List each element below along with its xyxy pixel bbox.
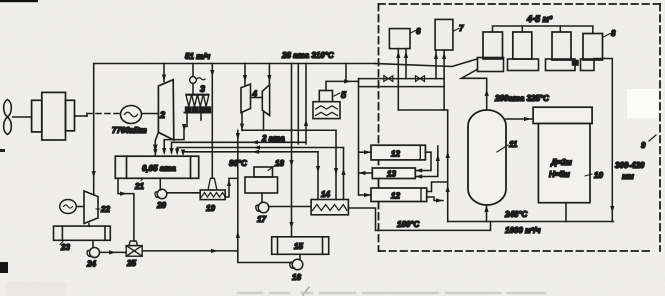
storage drum 3: [552, 32, 571, 60]
wire condenser21 bottom to ejector 25 via arrowed line: [118, 178, 134, 241]
wire bus drop into turbine 2 inlet: [163, 64, 165, 82]
propeller fan: [4, 100, 12, 135]
heat exchanger 13: [372, 168, 415, 179]
svg-text:100°С: 100°С: [397, 220, 420, 229]
drum manifold bracket: [493, 26, 593, 34]
drum water line 248C: [448, 221, 614, 223]
generator G 7700kW: [121, 106, 142, 124]
pump 20: [157, 189, 167, 199]
svg-text:300-420: 300-420: [615, 161, 645, 170]
wire bus drop to reducing station 3: [192, 64, 194, 77]
svg-text:10: 10: [594, 171, 603, 180]
svg-text:7700кВт: 7700кВт: [112, 126, 147, 135]
wire stub into 12 upper: [359, 151, 372, 153]
scan artifact white patch: [627, 89, 658, 118]
condensate nest line N2: [177, 148, 343, 153]
svg-text:16: 16: [292, 273, 301, 282]
svg-text:15: 15: [294, 242, 303, 251]
ejector cooler 19: [200, 178, 225, 199]
exchanger right-side connectors: [415, 152, 431, 170]
wire turbine22 exhaust to heater 23: [88, 224, 90, 227]
wire 19 right riser to x=237.8: [225, 178, 238, 197]
svg-text:12: 12: [391, 191, 400, 200]
wire band to downcomer: [594, 59, 612, 222]
tank 15: [272, 237, 329, 255]
storage drum 1: [483, 32, 503, 59]
turbine 22: [84, 191, 98, 224]
svg-text:25: 25: [126, 259, 136, 268]
dashed enclosure border (reactor plant boundary): [379, 4, 661, 251]
svg-text:3: 3: [200, 84, 205, 94]
wire bus down-left vertical to turbine 22: [93, 64, 95, 196]
wire turbine4 LP exhaust: [263, 112, 265, 130]
boiler vessel 11: [468, 110, 506, 205]
wire vertical x=358.5 feeding exchanger bank: [358, 79, 360, 195]
wire to pump 16: [238, 259, 291, 263]
svg-text:19: 19: [206, 204, 215, 213]
svg-text:80°С: 80°С: [229, 159, 247, 168]
wire stub into 12 lower: [359, 194, 372, 196]
svg-text:9: 9: [641, 141, 646, 150]
caption remnant dashes at bottom: [238, 292, 545, 295]
svg-text:0,05 ата: 0,05 ата: [142, 164, 176, 173]
drum support band: [478, 58, 595, 72]
wire condenser21 to pump 20: [159, 178, 161, 190]
wire risers to tank 7: [435, 50, 437, 79]
heat exchanger 12 (upper): [371, 145, 425, 160]
squiggle from circle: [197, 78, 206, 80]
wire 23 to pump 24: [92, 240, 94, 247]
motor of turbine 22: [60, 200, 77, 214]
wire riser into boiler vessel bottom: [486, 206, 488, 222]
svg-text:21: 21: [134, 182, 144, 191]
turbine 2 exhaust to condenser 21: [155, 132, 158, 156]
tank 6: [389, 29, 410, 49]
wire risers to tank 6: [397, 49, 399, 110]
storage drum 4: [583, 34, 603, 61]
wire 2ata header drop into 14: [335, 130, 337, 199]
wire N3 drop into 14: [317, 152, 319, 200]
wire pump17 to heater 14: [269, 206, 311, 208]
steam cooler 5: [313, 91, 340, 119]
svg-text:17: 17: [257, 215, 266, 224]
pump 16: [292, 259, 303, 270]
shaft wire fan to gearbox: [13, 116, 32, 118]
wire stub out of 13: [359, 172, 373, 174]
wire bus drop into turbine 4 LP: [268, 64, 270, 85]
ejector 25: [126, 241, 142, 256]
valve line 1 to makeup tanks: [359, 78, 445, 80]
svg-text:28 ата 310°С: 28 ата 310°С: [281, 51, 334, 60]
wire 18 to pump 17: [261, 193, 263, 203]
heat exchanger 12 (lower): [371, 188, 427, 202]
valve line 2: [359, 86, 445, 88]
svg-text:20: 20: [156, 201, 166, 210]
turbine 2: [158, 80, 173, 140]
shaft between casings: [251, 97, 263, 99]
condensate nest line N1: [172, 142, 307, 152]
arrow on x=93.7: [92, 171, 96, 178]
reducing valve station 3 : circle: [190, 77, 197, 84]
wire bus pair drop x=298.3: [297, 64, 299, 144]
valve V2: [416, 76, 425, 82]
svg-text:51 т/ч: 51 т/ч: [185, 52, 210, 61]
gearbox / compressor unit 1: [32, 92, 75, 140]
scan artifact left-edge black blob: [0, 262, 8, 273]
storage drum 2: [513, 32, 532, 59]
svg-text:22: 22: [100, 205, 110, 214]
condensate nest line N3: [183, 151, 318, 154]
wire pump20 to ejector cooler 19: [167, 192, 200, 194]
main steam line into boundary, diagonal riser to drum band: [375, 59, 477, 67]
wire station3 base drop right: [200, 113, 202, 120]
riser x=237.8 from 2ata header down to pump16 line: [237, 130, 239, 258]
station 3 nozzle bank: [184, 94, 210, 112]
reactor 10 body: [538, 124, 590, 203]
svg-text:4·5 м³: 4·5 м³: [526, 14, 553, 24]
svg-text:2: 2: [159, 110, 165, 120]
wire 14 riser up to N2: [343, 148, 345, 200]
wire bus drop into turbine 4 HP: [244, 64, 246, 86]
scan artifact top-left black line: [0, 0, 38, 2]
heater 14: [311, 200, 348, 215]
wire route down to big vertical x=447.5: [398, 87, 444, 110]
svg-text:11: 11: [509, 140, 518, 149]
svg-text:12: 12: [391, 150, 400, 159]
wire generator to turbine 2: [142, 113, 159, 115]
condenser 21: [115, 156, 198, 178]
wire ejector25 outlet to riser: [142, 250, 238, 252]
wire bus drop x=306 with up arrow: [305, 64, 307, 144]
node top bus corner / main steam header 51 t/h: [94, 63, 375, 65]
svg-text:248°С: 248°С: [504, 210, 528, 219]
svg-text:8: 8: [611, 29, 616, 38]
svg-text:Д=2м: Д=2м: [550, 158, 572, 167]
wire bus pair drop x=291.5 (to tank 15): [291, 64, 293, 237]
wire bus drop to ejector 19 (long vertical x=212): [211, 64, 213, 179]
pump 24: [90, 248, 100, 258]
svg-text:4: 4: [252, 90, 258, 99]
svg-text:мм: мм: [622, 172, 634, 181]
svg-text:13: 13: [387, 170, 396, 179]
heater 23: [54, 226, 111, 240]
wire pump16 to tank 15: [299, 254, 301, 259]
wire pump24 to ejector 25: [100, 251, 127, 253]
feedwater tank 18: [245, 167, 278, 193]
svg-text:200ата 325°С: 200ата 325°С: [494, 94, 549, 103]
2 ata header: [242, 129, 336, 131]
wire vessel top riser to drum band: [461, 70, 486, 111]
svg-text:23: 23: [60, 243, 70, 252]
caption remnant tick: [303, 287, 309, 295]
wire reactor bottom stem: [565, 203, 567, 222]
wire motor to turbine 22: [76, 206, 84, 208]
svg-text:7: 7: [459, 24, 464, 33]
wire cooler5 top outlet arrow right: [326, 81, 359, 90]
wire vessel to reactor 10: [506, 118, 533, 120]
wire 14 outlet to 100C line: [348, 208, 375, 230]
station 3 stem: [192, 84, 194, 95]
svg-text:6: 6: [416, 27, 421, 36]
svg-text:18: 18: [275, 159, 284, 168]
scan artifact grey shadow bottom-left: [5, 282, 67, 296]
tank 7: [435, 19, 453, 50]
100C condensate line: [376, 222, 491, 231]
scan artifact left-edge mark 1: [0, 149, 5, 152]
reactor 10 cap: [533, 107, 592, 123]
svg-text:Н=5м: Н=5м: [549, 170, 570, 179]
wire turbine4 HP exhaust to 2ata header: [241, 113, 243, 131]
valve V1: [384, 76, 393, 82]
shaft wire gearbox to generator (dashed coupling): [75, 115, 88, 117]
turbine 4 (two casings): [241, 84, 251, 113]
svg-text:24: 24: [86, 260, 96, 269]
wire bus drop to cooler5 outlet line: [345, 64, 347, 82]
pump 17: [258, 202, 269, 213]
wire station3 base drop left: [164, 113, 187, 153]
svg-text:14: 14: [321, 190, 330, 199]
svg-text:1000 м³/ч: 1000 м³/ч: [505, 226, 541, 235]
